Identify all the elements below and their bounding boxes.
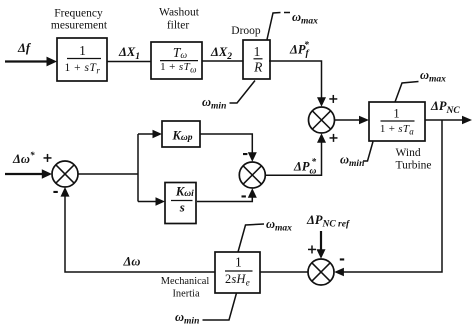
arrow into J3 bottom bbox=[248, 188, 257, 198]
fraction bar G4 bbox=[381, 120, 415, 122]
svg-text:Washout: Washout bbox=[159, 7, 200, 19]
sign - J4 right bbox=[340, 258, 344, 260]
svg-text:R: R bbox=[253, 59, 263, 74]
wire Kwp output to J3 top bbox=[200, 134, 252, 154]
block G4 wind turbine 1/(1+sTa) bbox=[369, 102, 425, 141]
wire Δω* input bbox=[5, 173, 45, 175]
svg-text:mesurement: mesurement bbox=[51, 20, 108, 32]
svg-text:Inertia: Inertia bbox=[172, 289, 200, 300]
svg-text:Wind: Wind bbox=[396, 147, 421, 159]
svg-text:1: 1 bbox=[393, 107, 399, 121]
arrow into Kwi/s bbox=[156, 197, 166, 206]
block G6 Kwp bbox=[162, 121, 200, 147]
sign - J3 top bbox=[243, 153, 247, 155]
arrow output ΔPNC bbox=[462, 116, 472, 125]
svg-text:s: s bbox=[179, 200, 185, 215]
wire Δf input bbox=[5, 60, 48, 62]
sign + J1 bottom bbox=[330, 134, 338, 142]
arrow into J4 right bbox=[334, 268, 344, 277]
summing junction J3 bbox=[239, 162, 265, 188]
limit line wind ωmax bbox=[395, 82, 419, 103]
wire J4 to mechanical inertia block bbox=[260, 271, 308, 273]
block G1 frequency measurement 1/(1+sTr) bbox=[57, 38, 107, 81]
wire branch to Kwi/s bbox=[138, 201, 157, 203]
svg-text:1 + sTa: 1 + sTa bbox=[380, 123, 414, 136]
svg-text:Δω: Δω bbox=[123, 255, 141, 269]
sign - J2 bottom bbox=[53, 191, 57, 193]
summing junction J1 bbox=[309, 107, 335, 133]
sign - J3 bottom bbox=[242, 195, 246, 197]
wire branch vertical bbox=[137, 134, 139, 202]
wire J2 output to branch point bbox=[78, 173, 138, 175]
svg-text:Frequency: Frequency bbox=[54, 8, 103, 20]
fraction bar G7 bbox=[171, 200, 193, 202]
wire Δω feedback to J2 bbox=[65, 195, 215, 272]
wire G1 to G2 node X1 bbox=[107, 61, 151, 63]
sign + J1 top bbox=[329, 95, 337, 103]
svg-text:1: 1 bbox=[254, 44, 261, 59]
fraction bar G1 bbox=[67, 58, 101, 60]
limit line droop ωmax bbox=[267, 13, 281, 40]
summing junction J2 bbox=[52, 161, 78, 187]
wire ΔPNC ref input bbox=[320, 231, 322, 251]
wire G2 to G3 node X2 bbox=[202, 60, 243, 62]
limit line mech ωmax bbox=[238, 224, 264, 252]
svg-text:filter: filter bbox=[167, 20, 190, 32]
block G3 droop 1/R bbox=[243, 40, 270, 79]
sign + J2 left bbox=[44, 154, 52, 162]
wire feedback branch from ΔPNC down to J4 bbox=[343, 120, 442, 272]
wire Kwi/s output to J3 bottom bbox=[197, 196, 252, 202]
fraction bar G3 bbox=[254, 58, 263, 60]
limit line mech ωmin bbox=[203, 293, 237, 320]
wire J1 to wind turbine block bbox=[335, 119, 361, 121]
svg-text:Mechanical: Mechanical bbox=[161, 276, 210, 287]
summing junction J4 bbox=[308, 259, 334, 285]
arrow into J1 top bbox=[317, 97, 326, 107]
arrow into J1 bottom bbox=[317, 133, 326, 143]
fraction bar G2 bbox=[160, 60, 198, 62]
block G2 washout filter Tw/(1+sTw) bbox=[151, 42, 202, 79]
svg-text:Δf: Δf bbox=[17, 41, 32, 55]
svg-text:1: 1 bbox=[235, 254, 242, 269]
wire droop output to summing junction J1 bbox=[269, 61, 322, 99]
arrow into wind turbine block bbox=[359, 116, 369, 125]
fraction bar G5 bbox=[225, 270, 253, 272]
wire wind turbine output ΔPNC bbox=[425, 119, 463, 121]
arrow into J3 top bbox=[248, 152, 257, 162]
arrow into Kwp bbox=[153, 130, 163, 139]
arrow into frequency block bbox=[47, 57, 58, 67]
arrow Δω* into J2 bbox=[42, 169, 52, 179]
sign + J4 top bbox=[308, 245, 316, 253]
svg-text:1: 1 bbox=[79, 43, 86, 58]
arrow into J2 bottom bbox=[61, 187, 70, 197]
limit line wind ωmin bbox=[363, 142, 373, 162]
svg-text:Turbine: Turbine bbox=[396, 160, 432, 172]
svg-text:Droop: Droop bbox=[231, 25, 261, 37]
wire J3 output ΔPω* up to J1 bbox=[266, 142, 322, 175]
svg-text:1 + sTr: 1 + sTr bbox=[65, 62, 101, 75]
block G5 mechanical inertia 1/(2sHe) bbox=[215, 252, 260, 293]
limit line droop ωmin bbox=[230, 81, 256, 104]
svg-text:ΔPf*: ΔPf* bbox=[289, 40, 309, 60]
wire branch to Kwp bbox=[138, 133, 154, 135]
arrow ΔPNC ref into J4 bbox=[317, 249, 326, 259]
block G7 Kwi/s bbox=[165, 183, 196, 224]
